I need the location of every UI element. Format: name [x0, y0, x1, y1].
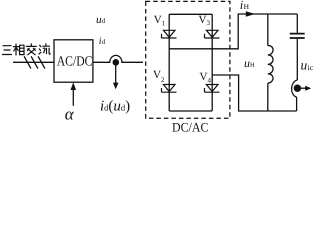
- svg-text:iH: iH: [240, 0, 250, 12]
- svg-text:AC/DC: AC/DC: [57, 54, 93, 69]
- svg-text:id: id: [99, 36, 106, 47]
- svg-text:α: α: [65, 105, 75, 124]
- svg-text:DC/AC: DC/AC: [172, 120, 208, 132]
